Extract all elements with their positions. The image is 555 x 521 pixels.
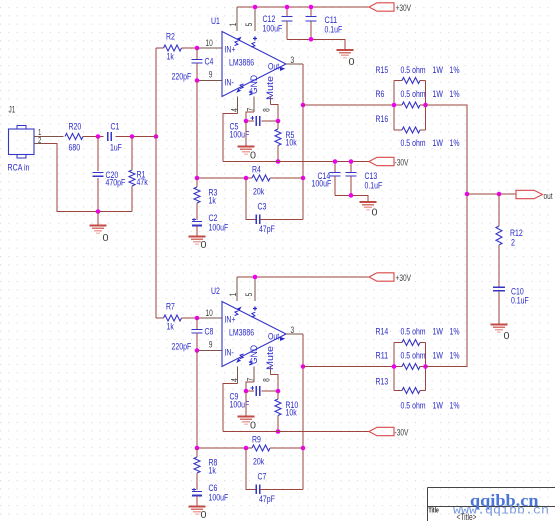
wire	[182, 47, 198, 49]
svg-text:+30V: +30V	[396, 273, 412, 283]
port out	[516, 190, 553, 201]
wire bank right	[425, 81, 427, 131]
capacitor C7	[246, 448, 303, 505]
node bank right	[423, 103, 428, 108]
svg-text:9: 9	[209, 340, 213, 350]
svg-text:R6: R6	[376, 89, 385, 100]
node ground rail	[96, 209, 101, 214]
value 0.5 ohm 1W 1%	[401, 401, 460, 412]
wire bank feed	[303, 104, 394, 106]
resistor R6	[376, 89, 426, 108]
node mute cap left	[244, 389, 249, 394]
svg-text:R7: R7	[166, 302, 175, 313]
svg-text:1%: 1%	[450, 138, 460, 149]
ground	[238, 147, 257, 162]
node output junction	[465, 192, 470, 197]
wire bank feed	[303, 366, 394, 368]
wire pin4 to rail	[223, 384, 238, 432]
svg-text:Mute: Mute	[265, 76, 276, 100]
svg-text:4: 4	[229, 378, 239, 382]
pin 3	[286, 333, 303, 335]
pin 8	[262, 97, 272, 112]
svg-text:0: 0	[372, 207, 378, 219]
pin 4	[229, 367, 239, 384]
svg-text:1%: 1%	[450, 327, 460, 338]
svg-text:R4: R4	[252, 165, 261, 176]
pin 1	[236, 277, 238, 301]
capacitor C1	[108, 122, 122, 154]
wire bank to output bus	[426, 194, 468, 367]
wire IN- to feedback	[196, 351, 198, 449]
wire	[83, 136, 104, 138]
pin 3	[286, 63, 303, 65]
svg-text:1%: 1%	[450, 89, 460, 100]
node input/C20	[96, 134, 101, 139]
svg-text:1W: 1W	[433, 327, 443, 338]
node IN+	[195, 316, 200, 321]
svg-text:-30V: -30V	[395, 428, 409, 438]
svg-text:20k: 20k	[253, 187, 264, 198]
op-amp U1	[211, 16, 286, 100]
pin 7	[245, 97, 255, 113]
node C1/R1	[130, 134, 135, 139]
ground	[360, 202, 378, 219]
node pin5 rail	[253, 5, 258, 10]
svg-text:R9: R9	[252, 435, 261, 446]
svg-text:R2: R2	[166, 32, 175, 43]
wire J1 pin2 to ground rail	[44, 144, 132, 212]
capacitor C12	[263, 7, 293, 39]
capacitor C4	[172, 48, 214, 83]
svg-text:220pF: 220pF	[172, 342, 192, 353]
svg-text:9: 9	[209, 70, 213, 80]
node C13 rail	[349, 159, 354, 164]
wire +30V rail	[237, 276, 369, 278]
wire pin8 to R	[271, 375, 279, 392]
svg-text:Title: Title	[429, 506, 439, 515]
svg-text:10k: 10k	[286, 408, 297, 419]
node Rm bottom	[276, 159, 281, 164]
svg-text:0.5 ohm: 0.5 ohm	[401, 65, 426, 76]
resistor R5	[275, 121, 297, 162]
pin 9	[197, 80, 222, 82]
resistor R16	[376, 114, 426, 133]
wire bypass ground	[287, 39, 345, 50]
resistor R20	[65, 122, 83, 154]
node Rf/Cf	[244, 446, 249, 451]
svg-text:R11: R11	[376, 351, 389, 362]
svg-text:7: 7	[245, 378, 255, 382]
wire output bus	[302, 64, 304, 219]
ground	[90, 212, 109, 245]
svg-text:U2: U2	[211, 286, 220, 297]
ground	[189, 507, 207, 521]
node C14 rail	[333, 159, 338, 164]
svg-text:1W: 1W	[433, 401, 443, 412]
pin 10	[197, 47, 222, 49]
wire pin7 to C	[246, 382, 254, 391]
svg-text:LM3886: LM3886	[229, 58, 254, 69]
svg-text:10k: 10k	[286, 138, 297, 149]
node IN+	[195, 46, 200, 51]
svg-text:220pF: 220pF	[172, 72, 192, 83]
svg-text:+30V: +30V	[396, 3, 412, 13]
svg-text:1k: 1k	[209, 466, 216, 477]
svg-text:0.5 ohm: 0.5 ohm	[401, 401, 426, 412]
node Rm bottom	[276, 429, 281, 434]
svg-text:0.5 ohm: 0.5 ohm	[401, 89, 426, 100]
svg-text:out: out	[544, 191, 553, 201]
value 0.5 ohm 1W 1%	[401, 327, 460, 338]
svg-text:C8: C8	[205, 327, 214, 338]
node C11 bottom	[309, 37, 314, 42]
capacitor C8	[172, 318, 214, 353]
resistor R2	[156, 32, 182, 63]
resistor R11	[376, 351, 426, 370]
capacitor C20	[93, 137, 126, 212]
node mute cap right	[276, 389, 281, 394]
svg-text:1%: 1%	[450, 351, 460, 362]
pin 8	[262, 367, 272, 382]
svg-text:0.1uF: 0.1uF	[365, 181, 383, 192]
svg-text:10: 10	[206, 38, 213, 48]
svg-text:1: 1	[228, 293, 238, 297]
svg-text:www.qqibb.cn: www.qqibb.cn	[453, 505, 549, 518]
node output/bank feed	[301, 103, 306, 108]
svg-text:Out: Out	[268, 331, 279, 342]
svg-text:1k: 1k	[167, 52, 174, 63]
capacitor C13	[346, 162, 383, 196]
svg-text:100uF: 100uF	[209, 493, 229, 504]
svg-text:1%: 1%	[450, 65, 460, 76]
svg-text:Out: Out	[268, 61, 279, 72]
svg-text:IN+: IN+	[225, 44, 236, 55]
svg-text:1W: 1W	[433, 138, 443, 149]
resistor R10	[275, 391, 298, 432]
svg-text:0: 0	[250, 420, 256, 432]
power port -30V	[369, 427, 408, 437]
svg-text:470pF: 470pF	[106, 178, 126, 189]
svg-text:0: 0	[103, 232, 109, 244]
value 0.5 ohm 1W 1%	[401, 351, 460, 362]
svg-text:3: 3	[291, 55, 295, 65]
pin 1	[236, 7, 238, 31]
svg-text:0.5 ohm: 0.5 ohm	[401, 138, 426, 149]
wire to ground	[245, 121, 247, 147]
svg-text:IN-: IN-	[225, 348, 234, 359]
capacitor C6	[192, 483, 228, 507]
svg-text:1uF: 1uF	[110, 143, 122, 154]
svg-text:680: 680	[69, 143, 81, 154]
svg-text:1k: 1k	[209, 196, 216, 207]
svg-text:C3: C3	[258, 202, 267, 213]
svg-text:IN-: IN-	[225, 78, 234, 89]
svg-text:0: 0	[250, 150, 256, 162]
wire pin8 to R	[271, 105, 279, 122]
wire C14/C13 ground	[335, 195, 368, 202]
node input bus	[154, 134, 159, 139]
svg-text:8: 8	[262, 108, 272, 112]
svg-text:1W: 1W	[433, 65, 443, 76]
svg-text:C7: C7	[258, 472, 267, 483]
wire	[182, 317, 198, 319]
resistor R3	[194, 178, 217, 220]
svg-text:1W: 1W	[433, 89, 443, 100]
wire input bus vertical	[155, 48, 157, 318]
node output/feedback	[301, 176, 306, 181]
node mute cap left	[244, 119, 249, 124]
capacitor C2	[192, 213, 228, 237]
op-amp U2	[211, 286, 286, 370]
wire pin4 to rail	[223, 114, 238, 162]
svg-text:C1: C1	[111, 122, 120, 133]
svg-text:0: 0	[201, 239, 207, 251]
node output/feedback	[301, 446, 306, 451]
pin 10	[197, 317, 222, 319]
svg-text:0.5 ohm: 0.5 ohm	[401, 327, 426, 338]
pin 7	[245, 367, 255, 383]
node output/bank feed	[301, 364, 306, 369]
svg-text:2: 2	[511, 238, 515, 249]
svg-text:Mute: Mute	[265, 346, 276, 370]
svg-text:LM3886: LM3886	[229, 328, 254, 339]
resistor R13	[376, 377, 426, 394]
node bank left	[392, 103, 397, 108]
wire -30V rail	[223, 161, 369, 163]
svg-text:100uF: 100uF	[263, 24, 283, 35]
svg-text:C4: C4	[205, 57, 214, 68]
svg-text:0: 0	[504, 330, 510, 342]
capacitor C11	[306, 7, 343, 39]
node IN-	[195, 348, 200, 353]
svg-text:47pF: 47pF	[259, 224, 275, 235]
wire bank to output bus	[426, 105, 468, 194]
node bank right	[423, 364, 428, 369]
svg-text:1W: 1W	[433, 351, 443, 362]
wire	[116, 136, 157, 138]
wire bank right	[425, 343, 427, 391]
node pin5 rail	[253, 275, 258, 280]
pin 5	[254, 277, 256, 301]
wire IN- to feedback	[196, 81, 198, 179]
svg-text:3: 3	[291, 325, 295, 335]
resistor R12	[496, 194, 523, 286]
value 0.5 ohm 1W 1%	[401, 138, 460, 149]
title block	[428, 488, 555, 521]
svg-text:IN+: IN+	[225, 314, 236, 325]
node C11 rail	[309, 5, 314, 10]
value 0.5 ohm 1W 1%	[401, 89, 460, 100]
svg-text:100uF: 100uF	[209, 223, 229, 234]
svg-text:47k: 47k	[137, 177, 148, 188]
svg-text:7: 7	[245, 108, 255, 112]
node C13 bottom	[349, 193, 354, 198]
svg-text:U1: U1	[211, 16, 220, 27]
resistor R4	[197, 165, 303, 198]
svg-text:4: 4	[229, 108, 239, 112]
power port -30V	[369, 157, 408, 167]
power port +30V	[369, 273, 411, 283]
ground	[189, 237, 207, 252]
svg-text:0: 0	[201, 509, 207, 521]
svg-text:J1: J1	[9, 105, 16, 115]
resistor R9	[197, 435, 303, 468]
resistor R14	[376, 327, 426, 346]
svg-text:47pF: 47pF	[259, 494, 275, 505]
svg-text:0.1uF: 0.1uF	[325, 25, 343, 36]
ground	[491, 325, 510, 343]
wire output bus	[302, 334, 304, 489]
wire -30V rail	[223, 431, 369, 433]
node C12 rail	[285, 5, 290, 10]
svg-text:R13: R13	[376, 377, 389, 388]
ground	[337, 50, 355, 68]
capacitor C14	[312, 162, 341, 196]
capacitor C5	[230, 116, 279, 141]
svg-text:1%: 1%	[450, 401, 460, 412]
connector J1	[8, 105, 64, 174]
resistor R15	[376, 65, 426, 84]
resistor R1	[129, 137, 148, 212]
pin 9	[197, 350, 222, 352]
svg-text:20k: 20k	[253, 457, 264, 468]
ground	[238, 417, 257, 432]
svg-text:R16: R16	[376, 114, 389, 125]
resistor R7	[156, 302, 182, 333]
svg-text:-30V: -30V	[395, 158, 409, 168]
node Rf/Cf	[244, 176, 249, 181]
wire pin7 to C	[246, 112, 254, 121]
wire bank left	[393, 81, 395, 131]
svg-text:0.1uF: 0.1uF	[511, 296, 529, 307]
wire bank left	[393, 343, 395, 391]
node mute cap right	[276, 119, 281, 124]
capacitor C10	[493, 287, 529, 325]
svg-text:R15: R15	[376, 65, 389, 76]
svg-text:0.5 ohm: 0.5 ohm	[401, 351, 426, 362]
node IN-	[195, 78, 200, 83]
power port +30V	[369, 3, 411, 13]
node bank left	[392, 364, 397, 369]
svg-text:100uF: 100uF	[312, 179, 332, 190]
node feedback left	[195, 446, 200, 451]
wire to out port	[467, 193, 516, 195]
resistor R8	[194, 448, 217, 490]
watermark	[453, 491, 549, 518]
value 0.5 ohm 1W 1%	[401, 65, 460, 76]
pin 4	[229, 97, 239, 114]
capacitor C9	[230, 386, 279, 411]
svg-text:5: 5	[244, 23, 254, 27]
node R12 branch	[497, 192, 502, 197]
svg-text:10: 10	[206, 308, 213, 318]
svg-text:0: 0	[349, 56, 355, 68]
svg-text:1: 1	[228, 23, 238, 27]
svg-text:1k: 1k	[167, 322, 174, 333]
node feedback left	[195, 176, 200, 181]
svg-text:5: 5	[244, 293, 254, 297]
capacitor C3	[246, 178, 303, 235]
wire +30V rail	[237, 6, 369, 8]
wire to ground	[245, 391, 247, 417]
svg-text:R20: R20	[69, 122, 82, 133]
pin 5	[254, 7, 256, 31]
svg-text:8: 8	[262, 378, 272, 382]
svg-text:RCA in: RCA in	[8, 163, 30, 174]
svg-text:R14: R14	[376, 327, 389, 338]
